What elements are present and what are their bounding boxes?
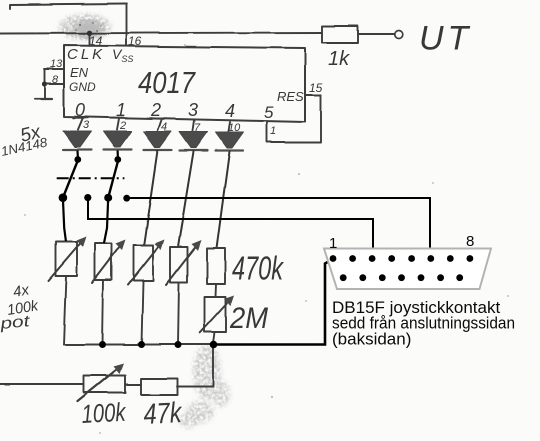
potentiometer P100k	[78, 364, 126, 402]
wire clock rail to 1K	[0, 33, 322, 34]
node S1 contact	[59, 193, 68, 202]
svg-text:16: 16	[128, 34, 142, 48]
ground	[35, 98, 53, 100]
diode D3	[144, 119, 172, 151]
node UT terminal	[395, 31, 403, 39]
wire P2 to bus	[102, 280, 103, 345]
node bus P2	[99, 341, 106, 348]
potentiometer P3	[128, 240, 165, 285]
node pin8 junction	[42, 81, 47, 86]
resistor R470k	[207, 248, 225, 284]
svg-text:3: 3	[188, 100, 198, 120]
svg-text:470k: 470k	[232, 250, 284, 287]
wire P1 to bus	[64, 276, 67, 345]
svg-text:UT: UT	[419, 20, 472, 58]
wire DB15 pin1 to bus	[213, 260, 332, 345]
svg-text:4: 4	[161, 121, 167, 133]
scan smudge near pin 14	[59, 14, 111, 40]
node D1 out	[74, 156, 81, 163]
wire 47k to vertical	[178, 386, 214, 388]
svg-text:100k: 100k	[81, 397, 128, 429]
wire S2 pole stub	[104, 198, 108, 243]
diode D2	[104, 119, 132, 150]
wire EN-GND tie	[44, 69, 46, 99]
node bus P3	[138, 341, 145, 348]
wire D3 to pot P3	[144, 151, 158, 246]
svg-text:GND: GND	[69, 80, 96, 94]
node S2 contact	[104, 194, 112, 202]
svg-text:1: 1	[329, 235, 337, 252]
svg-text:pot: pot	[0, 313, 31, 333]
scan smudge near bottom vertical wire	[179, 344, 230, 428]
IC U1 4017 body	[64, 46, 305, 123]
svg-text:0: 0	[75, 100, 85, 120]
svg-text:2M: 2M	[229, 302, 268, 335]
wire D4 to pot P4	[178, 152, 194, 248]
resistor R47k	[142, 379, 179, 396]
diode D5	[216, 122, 244, 151]
svg-text:EN: EN	[70, 65, 89, 80]
svg-text:10: 10	[228, 122, 241, 134]
svg-text:5: 5	[264, 103, 274, 122]
wire pin14 drop	[89, 33, 91, 46]
svg-text:(baksidan): (baksidan)	[332, 329, 411, 348]
svg-text:1k: 1k	[328, 48, 350, 70]
node D2 out	[114, 156, 121, 163]
diode D4	[180, 120, 208, 151]
connector pins row 1	[330, 255, 474, 262]
label DB15F caption	[332, 298, 515, 348]
node bus P4	[175, 341, 182, 348]
wire D2 to switch	[116, 151, 119, 162]
switch S1 lever	[63, 160, 78, 198]
wire D1 to switch	[76, 151, 79, 161]
svg-text:8: 8	[466, 233, 474, 250]
wire S1 pole stub	[63, 198, 66, 241]
wire between 100k and 47k	[126, 384, 142, 386]
svg-text:47k: 47k	[143, 397, 184, 431]
svg-text:2: 2	[119, 120, 126, 132]
svg-text:13: 13	[50, 58, 63, 70]
connector pins row 2	[340, 274, 463, 281]
svg-text:15: 15	[309, 81, 323, 95]
connector J1 DB15F shell	[324, 249, 491, 290]
wire pin13 EN stub	[45, 68, 64, 70]
wire 2M to bus junction	[214, 332, 216, 344]
svg-text:8: 8	[52, 74, 59, 86]
svg-text:1: 1	[116, 100, 126, 120]
wire common bus	[64, 344, 215, 346]
svg-text:1: 1	[270, 125, 276, 137]
potentiometer P1	[48, 237, 87, 282]
svg-text:14: 14	[89, 34, 103, 48]
node B start	[84, 194, 91, 201]
svg-text:CLK: CLK	[67, 46, 105, 63]
wire P4 to bus	[178, 283, 179, 345]
scan specks	[24, 44, 509, 434]
wire junction to series pair	[213, 345, 215, 387]
svg-text:2: 2	[150, 100, 161, 120]
svg-text:4017: 4017	[138, 65, 196, 100]
wire pin16 vertical	[126, 4, 128, 46]
wire 1K to UT terminal	[358, 33, 394, 35]
svg-text:7: 7	[194, 122, 201, 134]
svg-text:3: 3	[83, 119, 90, 131]
svg-text:4: 4	[225, 101, 235, 121]
node pin14 junction	[87, 30, 92, 35]
wire pin15 RES stub	[305, 94, 321, 96]
svg-text:RES: RES	[277, 89, 304, 104]
wire P3 to bus	[142, 281, 144, 345]
potentiometer P2	[92, 240, 126, 283]
potentiometer P4	[166, 240, 202, 285]
trimmer R2M	[200, 296, 235, 334]
wire R470k to trimmer	[215, 284, 218, 297]
wire pin8 GND stub	[44, 83, 64, 85]
switch S2 lever	[108, 161, 118, 198]
diode D1	[64, 118, 92, 150]
wire joystick A	[126, 198, 430, 256]
wire RES loop	[267, 95, 321, 142]
resistor R 1K	[322, 26, 358, 43]
wire joystick B	[88, 198, 373, 257]
wire top rail to pin 16	[10, 4, 127, 10]
node A start	[123, 195, 130, 202]
digit underlines	[73, 118, 164, 119]
mechanical link dash-dot	[57, 177, 125, 179]
node bus 2M	[210, 341, 218, 349]
wire D5 to resistor R470k	[217, 152, 230, 249]
wire left edge to 100k	[0, 383, 84, 385]
